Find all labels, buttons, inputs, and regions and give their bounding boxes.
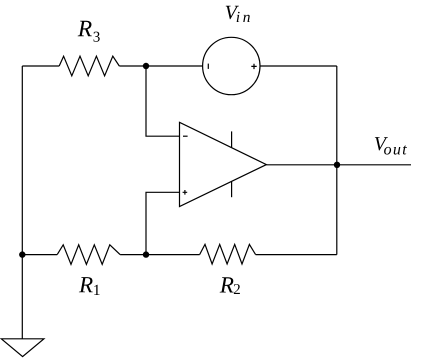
wire left rail vertical (21, 66, 23, 255)
node junction dot bottom-left (19, 251, 25, 257)
Vin plus terminal mark (251, 64, 256, 69)
wire bottom-left node to resistor R1 (22, 254, 57, 256)
wire Vin source to right rail corner (260, 65, 337, 67)
label Vout (375, 137, 388, 150)
voltage source Vin circle (203, 37, 260, 94)
resistor R3 (59, 56, 119, 76)
node junction dot at op-amp output (334, 162, 340, 168)
label R2 (220, 277, 234, 292)
op-amp negative supply pin (231, 181, 233, 197)
op-amp U1 triangle (180, 122, 267, 206)
node junction dot at R3 / inverting input (143, 63, 149, 69)
wire ground lead (21, 255, 23, 339)
resistor R1 (57, 245, 120, 265)
wire R2 to right rail corner (256, 254, 337, 256)
label R1 (79, 277, 93, 292)
Vin minus terminal mark (207, 64, 209, 69)
wire R3 to Vin source (119, 65, 202, 67)
label Vin (226, 6, 239, 19)
wire node to op-amp inverting input (146, 66, 180, 136)
wire top-left corner to resistor R3 (22, 65, 59, 67)
wire R1 to bottom-middle node (120, 254, 200, 256)
wire op-amp output to Vout (266, 164, 411, 166)
op-amp non-inverting input plus sign (183, 190, 188, 195)
node junction dot bottom-middle (143, 251, 149, 257)
wire node to op-amp non-inverting input (146, 192, 180, 254)
op-amp inverting input minus sign (183, 135, 188, 137)
resistor R2 (200, 244, 256, 264)
wire right rail vertical (336, 66, 338, 255)
ground symbol (1, 339, 44, 357)
label R3 (78, 21, 92, 36)
op-amp positive supply pin (231, 131, 233, 147)
